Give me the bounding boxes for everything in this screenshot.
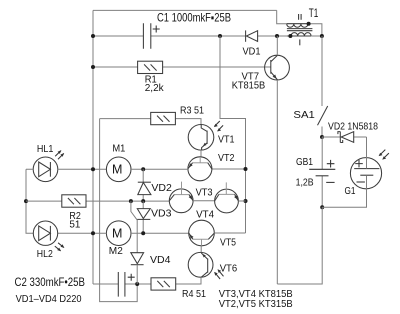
diode VD2 1N5818 <box>322 120 378 142</box>
wire VT5 base to VT6 <box>200 246 202 253</box>
motor M1 <box>106 143 131 182</box>
wire VT6 collector to R4 <box>176 277 201 284</box>
svg-text:VT5: VT5 <box>220 237 236 249</box>
wire VT5 collector <box>214 232 245 234</box>
wire M2 row <box>58 232 189 234</box>
svg-text:VD1: VD1 <box>243 46 261 58</box>
svg-text:R3 51: R3 51 <box>180 105 204 117</box>
svg-text:VT4: VT4 <box>196 208 214 220</box>
wire VT2 collector to link column <box>212 168 246 170</box>
svg-text:M1: M1 <box>112 143 125 155</box>
svg-text:GB1: GB1 <box>296 156 313 168</box>
wire G1 bottom <box>322 175 366 207</box>
svg-text:VT1: VT1 <box>218 134 235 146</box>
motor M2 <box>106 221 131 257</box>
svg-text:HL1: HL1 <box>37 143 54 155</box>
svg-text:VT2: VT2 <box>218 152 235 164</box>
switch SA1 <box>293 36 327 137</box>
wire jog R2 net to VD4 <box>131 201 137 253</box>
wire left supply rail <box>92 10 94 284</box>
svg-text:1,2B: 1,2B <box>296 176 314 188</box>
node VD2/VD3 <box>141 199 145 203</box>
svg-text:VD4: VD4 <box>150 254 171 266</box>
diode VD2 <box>138 169 172 201</box>
wire top rail <box>93 9 277 11</box>
svg-text:VD1–VD4 D220: VD1–VD4 D220 <box>16 293 82 305</box>
node VT2 collector <box>244 167 248 171</box>
transistor VT5 <box>189 220 236 248</box>
node GB1 bottom <box>320 205 324 209</box>
node jog top <box>129 199 133 203</box>
core <box>287 29 313 31</box>
transistor VT3 <box>169 182 212 213</box>
node R2 left <box>24 199 28 203</box>
wire HL side chain <box>26 169 33 233</box>
transistor VT4 <box>196 182 238 220</box>
node VD2 top <box>141 167 145 171</box>
node C1 row / left rail <box>91 34 95 38</box>
node VD3 bottom <box>141 231 145 235</box>
wire C1 row <box>93 35 291 37</box>
svg-text:M2: M2 <box>109 245 123 257</box>
wire link column <box>220 36 246 233</box>
diode VD4 <box>131 253 171 284</box>
winding I <box>287 35 311 37</box>
resistor R1 <box>91 61 271 94</box>
winding I label <box>299 39 301 45</box>
winding II <box>287 23 308 25</box>
wire HL1 row <box>26 168 107 170</box>
wire bottom right <box>277 207 322 284</box>
wire VT7 collector <box>276 36 278 55</box>
resistor R2 <box>26 195 169 231</box>
svg-text:VT2,VT5 KT315B: VT2,VT5 KT315B <box>219 298 293 310</box>
transistor VT7 <box>232 55 290 91</box>
LED HL1 <box>33 143 64 182</box>
transformer T1 <box>277 8 324 46</box>
svg-text:2,2k: 2,2k <box>145 82 165 94</box>
phototransistor VT6 <box>188 252 237 279</box>
wire VT7 emitter <box>276 80 278 284</box>
node VT4 emitter <box>244 199 248 203</box>
wire VT4 emitter <box>238 200 245 202</box>
svg-text:VT3: VT3 <box>196 186 213 198</box>
wire VT1 emitter to VT2 base <box>200 150 202 157</box>
phototransistor VT1 <box>188 121 234 150</box>
svg-text:VD2 1N5818: VD2 1N5818 <box>328 120 378 132</box>
wire collector-return loop <box>100 119 138 302</box>
wire M1 to VT2 emitter <box>131 168 188 170</box>
resistor R3 <box>100 105 205 125</box>
transistor VT2 <box>188 152 235 181</box>
diode VD1 <box>243 30 261 57</box>
svg-text:HL2: HL2 <box>37 248 53 260</box>
svg-text:M: M <box>112 226 122 240</box>
svg-text:51: 51 <box>69 219 80 231</box>
node VD1 / VT7 collector <box>275 34 279 38</box>
capacitor C2 <box>15 272 138 297</box>
svg-text:R4 51: R4 51 <box>182 288 206 300</box>
diode VD3 <box>137 201 171 233</box>
node C2 / VD4 / R4 <box>135 282 139 286</box>
node VD1 / link column <box>218 34 222 38</box>
node HL1 / left rail <box>91 167 95 171</box>
wire VT3 to VT4 <box>193 200 215 202</box>
node M2 / left rail <box>91 231 95 235</box>
svg-text:KT815B: KT815B <box>232 80 266 92</box>
wire G1 top <box>366 137 368 169</box>
capacitor C1 <box>143 10 231 49</box>
node SA1 / VD2 <box>320 135 324 139</box>
svg-text:C2 330mkF•25B: C2 330mkF•25B <box>15 275 86 289</box>
winding II label <box>299 14 302 20</box>
solar cell G1 <box>345 150 389 198</box>
svg-text:M: M <box>112 163 122 177</box>
svg-text:SA1: SA1 <box>293 109 315 121</box>
svg-text:C1 1000mkF▪25B: C1 1000mkF▪25B <box>157 10 231 24</box>
battery GB1 <box>296 137 336 207</box>
svg-text:VT6: VT6 <box>220 262 238 274</box>
LED HL2 <box>33 221 64 260</box>
svg-text:VD2: VD2 <box>151 182 172 194</box>
svg-text:T1: T1 <box>309 8 319 20</box>
svg-text:VD3: VD3 <box>151 208 172 220</box>
svg-text:G1: G1 <box>345 185 356 197</box>
resistor R4 <box>137 278 206 300</box>
